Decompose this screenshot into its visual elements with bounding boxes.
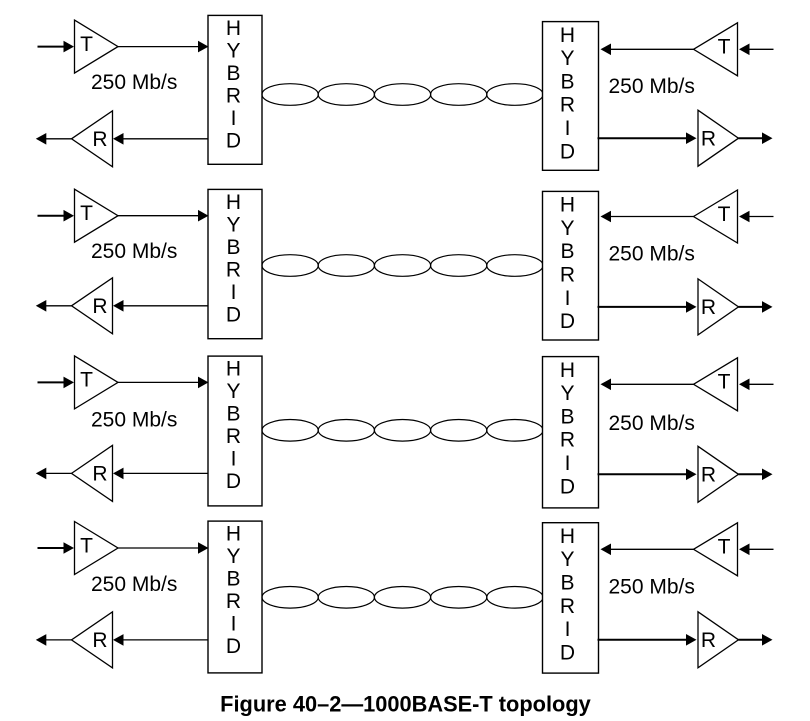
svg-text:I: I xyxy=(565,117,571,140)
wire: MDI input to transmitter T (left PHY, pair 3) xyxy=(38,377,75,389)
svg-text:I: I xyxy=(231,281,237,304)
receiver R (left PHY, pair 2) xyxy=(72,278,113,334)
svg-text:D: D xyxy=(226,635,241,658)
wire: MDI input to transmitter T (left PHY, pair 4) xyxy=(38,542,75,554)
svg-text:H: H xyxy=(226,523,241,546)
transmitter T (right PHY, pair 3) xyxy=(694,358,738,411)
svg-text:Y: Y xyxy=(226,213,240,236)
svg-text:B: B xyxy=(560,572,574,595)
svg-text:250 Mb/s: 250 Mb/s xyxy=(91,573,177,596)
svg-text:R: R xyxy=(226,590,241,613)
svg-text:250 Mb/s: 250 Mb/s xyxy=(91,409,177,432)
wire: receiver R output to MDI (right PHY, pair 2) xyxy=(739,301,773,313)
svg-text:D: D xyxy=(226,130,241,153)
wire: MDI input to transmitter T (right PHY, pair 3) xyxy=(739,379,774,391)
svg-text:R: R xyxy=(560,595,575,618)
svg-text:250 Mb/s: 250 Mb/s xyxy=(609,576,695,599)
twisted-pair cable segment 1 (pair 4) xyxy=(262,587,318,609)
wire: transmitter T output to left HYBRID (pair 4) xyxy=(118,542,209,554)
transmitter T (right PHY, pair 2) xyxy=(694,190,738,243)
wire: MDI input to transmitter T (left PHY, pair 2) xyxy=(38,210,75,222)
svg-text:D: D xyxy=(560,140,575,163)
svg-text:R: R xyxy=(226,259,241,282)
twisted-pair cable segment 4 (pair 1) xyxy=(431,84,487,106)
twisted-pair cable segment 1 (pair 3) xyxy=(262,420,318,442)
receiver R (left PHY, pair 4) xyxy=(72,612,113,668)
svg-text:250 Mb/s: 250 Mb/s xyxy=(91,240,177,263)
svg-text:T: T xyxy=(718,203,731,226)
wire: receiver R output to MDI (right PHY, pair 1) xyxy=(739,132,773,144)
receiver R (right PHY, pair 4) xyxy=(698,612,739,668)
hybrid H (right PHY, pair 4) xyxy=(543,523,599,673)
twisted-pair cable segment 5 (pair 2) xyxy=(487,255,543,277)
wire: right HYBRID to receiver R (pair 2) xyxy=(598,301,697,313)
svg-text:250 Mb/s: 250 Mb/s xyxy=(609,243,695,266)
wire: receiver R output to MDI (right PHY, pair 3) xyxy=(739,469,773,481)
svg-text:T: T xyxy=(80,534,93,557)
receiver R (right PHY, pair 3) xyxy=(698,446,739,502)
svg-text:250 Mb/s: 250 Mb/s xyxy=(91,71,177,94)
svg-text:R: R xyxy=(226,425,241,448)
twisted-pair cable segment 4 (pair 3) xyxy=(431,420,487,442)
svg-text:D: D xyxy=(226,470,241,493)
twisted-pair cable segment 4 (pair 2) xyxy=(431,255,487,277)
svg-text:B: B xyxy=(560,240,574,263)
hybrid H (left PHY, pair 1) xyxy=(208,15,262,164)
wire: left HYBRID to receiver R (pair 4) xyxy=(113,634,209,646)
twisted-pair cable segment 3 (pair 2) xyxy=(374,255,430,277)
hybrid H (left PHY, pair 4) xyxy=(208,521,262,673)
receiver R (right PHY, pair 2) xyxy=(698,279,739,335)
wire: left HYBRID to receiver R (pair 1) xyxy=(113,133,209,145)
svg-text:B: B xyxy=(560,405,574,428)
transmitter T (right PHY, pair 1) xyxy=(694,23,738,76)
svg-text:B: B xyxy=(226,568,240,591)
svg-text:R: R xyxy=(92,128,107,151)
wire: transmitter T output to right HYBRID (pair 4) xyxy=(601,544,694,556)
twisted-pair cable segment 3 (pair 3) xyxy=(374,420,430,442)
svg-text:R: R xyxy=(92,629,107,652)
transmitter T (right PHY, pair 4) xyxy=(694,523,738,576)
wire: MDI input to transmitter T (left PHY, pair 1) xyxy=(38,41,75,53)
transmitter T (left PHY, pair 3) xyxy=(75,356,119,409)
twisted-pair cable segment 2 (pair 4) xyxy=(318,587,374,609)
svg-text:H: H xyxy=(226,17,241,40)
svg-text:I: I xyxy=(565,287,571,310)
wire: transmitter T output to left HYBRID (pair 1) xyxy=(118,41,209,53)
svg-text:D: D xyxy=(226,304,241,327)
svg-text:H: H xyxy=(560,525,575,548)
twisted-pair cable segment 1 (pair 2) xyxy=(262,255,318,277)
twisted-pair cable segment 4 (pair 4) xyxy=(431,587,487,609)
receiver R (right PHY, pair 1) xyxy=(698,110,739,166)
svg-text:H: H xyxy=(560,194,575,217)
svg-text:R: R xyxy=(92,463,107,486)
wire: MDI input to transmitter T (right PHY, pair 4) xyxy=(739,544,774,556)
twisted-pair cable segment 5 (pair 1) xyxy=(487,84,543,106)
svg-text:B: B xyxy=(226,403,240,426)
svg-text:R: R xyxy=(701,127,716,150)
twisted-pair cable segment 3 (pair 4) xyxy=(374,587,430,609)
svg-text:H: H xyxy=(560,359,575,382)
hybrid H (right PHY, pair 1) xyxy=(543,22,599,171)
wire: transmitter T output to right HYBRID (pair 1) xyxy=(601,44,694,56)
svg-text:B: B xyxy=(226,236,240,259)
transmitter T (left PHY, pair 2) xyxy=(75,189,119,242)
svg-text:B: B xyxy=(226,62,240,85)
wire: receiver R output to MDI (left PHY, pair 1) xyxy=(36,133,72,145)
svg-text:T: T xyxy=(80,369,93,392)
svg-text:Figure 40–2—1000BASE-T topolog: Figure 40–2—1000BASE-T topology xyxy=(220,691,591,716)
twisted-pair cable segment 5 (pair 3) xyxy=(487,420,543,442)
wire: transmitter T output to right HYBRID (pair 2) xyxy=(601,211,694,223)
wire: receiver R output to MDI (left PHY, pair 4) xyxy=(36,634,72,646)
receiver R (left PHY, pair 3) xyxy=(72,445,113,501)
transmitter T (left PHY, pair 1) xyxy=(75,20,119,73)
transmitter T (left PHY, pair 4) xyxy=(75,522,119,575)
wire: MDI input to transmitter T (right PHY, pair 1) xyxy=(739,44,774,56)
svg-text:H: H xyxy=(560,24,575,47)
wire: right HYBRID to receiver R (pair 3) xyxy=(598,469,697,481)
svg-text:R: R xyxy=(560,94,575,117)
svg-text:I: I xyxy=(231,448,237,471)
svg-text:D: D xyxy=(560,475,575,498)
wire: right HYBRID to receiver R (pair 4) xyxy=(598,634,697,646)
hybrid H (left PHY, pair 3) xyxy=(208,356,262,506)
hybrid H (right PHY, pair 3) xyxy=(543,357,599,508)
svg-text:250 Mb/s: 250 Mb/s xyxy=(609,75,695,98)
hybrid H (right PHY, pair 2) xyxy=(543,191,599,340)
hybrid H (left PHY, pair 2) xyxy=(208,189,262,338)
svg-text:R: R xyxy=(560,264,575,287)
wire: MDI input to transmitter T (right PHY, pair 2) xyxy=(739,211,774,223)
svg-text:I: I xyxy=(231,107,237,130)
receiver R (left PHY, pair 1) xyxy=(72,111,113,167)
twisted-pair cable segment 2 (pair 2) xyxy=(318,255,374,277)
twisted-pair cable segment 2 (pair 1) xyxy=(318,84,374,106)
svg-text:Y: Y xyxy=(560,217,574,240)
svg-text:Y: Y xyxy=(226,380,240,403)
svg-text:B: B xyxy=(560,70,574,93)
svg-text:Y: Y xyxy=(560,382,574,405)
svg-text:T: T xyxy=(718,371,731,394)
wire: receiver R output to MDI (right PHY, pair 4) xyxy=(739,634,773,646)
wire: transmitter T output to left HYBRID (pair 2) xyxy=(118,210,209,222)
svg-text:T: T xyxy=(80,33,93,56)
svg-text:R: R xyxy=(92,295,107,318)
svg-text:R: R xyxy=(226,85,241,108)
twisted-pair cable segment 1 (pair 1) xyxy=(262,84,318,106)
wire: transmitter T output to left HYBRID (pair 3) xyxy=(118,377,209,389)
twisted-pair cable segment 5 (pair 4) xyxy=(487,587,543,609)
wire: left HYBRID to receiver R (pair 2) xyxy=(113,300,209,312)
svg-text:I: I xyxy=(231,613,237,636)
wire: right HYBRID to receiver R (pair 1) xyxy=(598,132,697,144)
twisted-pair cable segment 3 (pair 1) xyxy=(374,84,430,106)
svg-text:T: T xyxy=(80,202,93,225)
svg-text:I: I xyxy=(565,452,571,475)
svg-text:R: R xyxy=(701,629,716,652)
svg-text:Y: Y xyxy=(560,47,574,70)
svg-text:R: R xyxy=(560,429,575,452)
svg-text:Y: Y xyxy=(226,545,240,568)
svg-text:I: I xyxy=(565,618,571,641)
svg-text:Y: Y xyxy=(560,548,574,571)
wire: left HYBRID to receiver R (pair 3) xyxy=(113,468,209,480)
svg-text:H: H xyxy=(226,191,241,214)
svg-text:R: R xyxy=(701,464,716,487)
wire: receiver R output to MDI (left PHY, pair 3) xyxy=(36,468,72,480)
svg-text:250 Mb/s: 250 Mb/s xyxy=(609,412,695,435)
svg-text:Y: Y xyxy=(226,39,240,62)
svg-text:H: H xyxy=(226,358,241,381)
svg-text:T: T xyxy=(718,36,731,59)
svg-text:D: D xyxy=(560,310,575,333)
svg-text:R: R xyxy=(701,296,716,319)
wire: transmitter T output to right HYBRID (pair 3) xyxy=(601,379,694,391)
svg-text:T: T xyxy=(718,536,731,559)
wire: receiver R output to MDI (left PHY, pair 2) xyxy=(36,300,72,312)
twisted-pair cable segment 2 (pair 3) xyxy=(318,420,374,442)
svg-text:D: D xyxy=(560,641,575,664)
